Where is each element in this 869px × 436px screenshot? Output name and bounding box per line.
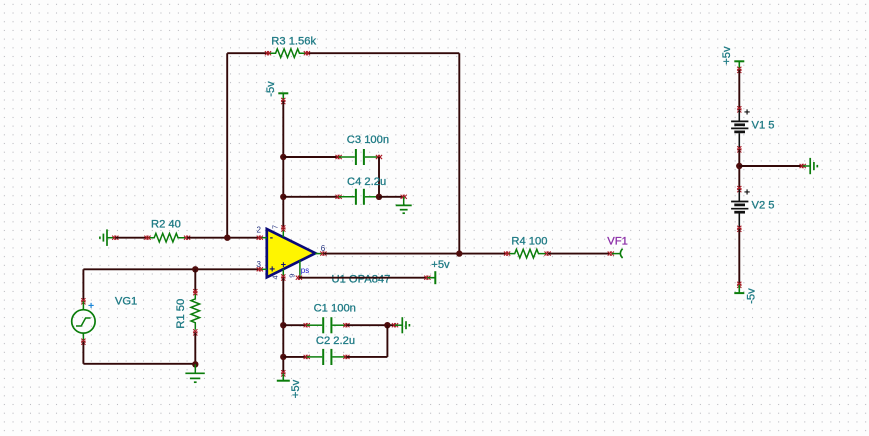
resistor R4	[504, 249, 551, 258]
svg-text:V2 5: V2 5	[752, 199, 775, 211]
svg-text:ps: ps	[301, 266, 309, 275]
node junction C1 left	[280, 322, 286, 328]
pin 9 ps lead	[296, 261, 302, 280]
wire feedback left vertical	[226, 53, 228, 238]
wire VG1 top vertical	[82, 269, 84, 301]
svg-text:6: 6	[321, 244, 326, 253]
node junction output/feedback	[456, 250, 462, 256]
svg-text:+: +	[281, 260, 286, 270]
power terminal +5v bottom	[277, 370, 290, 380]
node junction feedback/input	[224, 235, 230, 241]
battery V1	[731, 106, 750, 152]
svg-text:+5v: +5v	[290, 379, 302, 398]
svg-text:C1 100n: C1 100n	[314, 303, 356, 315]
svg-text:VF1: VF1	[607, 235, 628, 247]
wire op-amp pin4 down	[282, 278, 284, 374]
node junction R1 bottom	[192, 361, 198, 367]
capacitor C4	[336, 189, 380, 205]
wire C1 right	[346, 324, 395, 326]
wire C1 left	[283, 324, 306, 326]
node junction C1 right	[384, 322, 390, 328]
wire feedback top-left segment	[227, 52, 268, 54]
capacitor C3	[336, 149, 383, 165]
pin 4 bottom power lead	[281, 269, 285, 281]
svg-text:2: 2	[257, 226, 262, 235]
wire VG1 to op-amp pin 3	[83, 268, 259, 270]
op-amp U1 triangle	[267, 229, 316, 277]
source VG1	[72, 298, 95, 345]
power terminal +5v (ps)	[424, 271, 435, 284]
wire input gnd to R2	[115, 237, 147, 239]
wire bottom horizontal to R1	[83, 363, 195, 365]
wire C3 left	[283, 156, 338, 158]
node junction mid supply	[736, 163, 742, 169]
wire R1 bottom	[194, 332, 196, 364]
node junction C4 right	[376, 194, 382, 200]
svg-text:V1 5: V1 5	[752, 119, 775, 131]
output terminal VF1	[608, 249, 623, 258]
power terminal +5v top right	[734, 61, 744, 73]
node junction C2 left	[280, 354, 286, 360]
wire C2 up to C1	[386, 325, 388, 357]
node junction C3 left	[280, 154, 286, 160]
svg-text:R3 1.56k: R3 1.56k	[271, 35, 316, 47]
svg-text:VG1: VG1	[115, 296, 137, 308]
node junction C4 left	[280, 194, 286, 200]
wire junction to ground	[739, 165, 802, 167]
wire C4 left	[283, 196, 338, 198]
ground right rail (rotated right)	[800, 158, 818, 174]
pin 2 lead	[257, 236, 267, 240]
svg-text:R1 50: R1 50	[175, 299, 187, 329]
svg-text:+: +	[88, 300, 94, 312]
svg-text:-5v: -5v	[265, 81, 277, 97]
wire R4 to VF1	[548, 253, 610, 255]
svg-text:-: -	[270, 233, 273, 244]
svg-text:-5v: -5v	[746, 288, 758, 304]
capacitor C1	[304, 317, 350, 333]
svg-text:C2 2.2u: C2 2.2u	[316, 335, 355, 347]
svg-text:+: +	[744, 186, 750, 198]
svg-text:R2 40: R2 40	[151, 219, 181, 231]
svg-text:+: +	[744, 107, 750, 119]
wire C2 right	[346, 356, 387, 358]
wire V1 to junction	[738, 149, 740, 189]
power terminal -5v	[278, 93, 288, 104]
wire -5v rail vertical	[282, 101, 284, 229]
svg-text:+5v: +5v	[721, 46, 733, 65]
battery V2	[731, 186, 750, 232]
wire C4 to ground	[379, 196, 404, 198]
ground input (rotated left)	[100, 229, 119, 246]
wire ps to +5v	[299, 277, 428, 279]
svg-text:C4 2.2u: C4 2.2u	[347, 176, 386, 188]
svg-text:7: 7	[271, 225, 280, 229]
wire R1 top	[194, 269, 196, 292]
pin 6 output lead	[315, 252, 326, 256]
svg-text:+: +	[269, 265, 275, 276]
wire feedback right vertical	[458, 53, 460, 253]
wire V2 to -5v terminal	[738, 229, 740, 285]
svg-text:U1 OPA847: U1 OPA847	[332, 274, 391, 286]
svg-text:4: 4	[271, 275, 280, 279]
node junction R1 top	[192, 266, 198, 272]
wire R2 to op-amp pin 2	[187, 237, 260, 239]
pin 3 lead	[257, 267, 267, 271]
svg-text:R4 100: R4 100	[511, 235, 547, 247]
wire C3 right down to C4	[378, 157, 380, 197]
pin 7 top power lead	[281, 225, 285, 237]
svg-text:9: 9	[288, 274, 297, 278]
wire C2 left	[283, 356, 306, 358]
ground C4	[396, 195, 412, 214]
resistor R1	[191, 289, 200, 335]
wire VG1 bottom vertical	[82, 342, 84, 364]
power terminal -5v bottom right	[734, 282, 744, 293]
wire +5v terminal to V1	[738, 70, 740, 110]
capacitor C2	[304, 349, 350, 365]
wire feedback top-right segment	[307, 52, 459, 54]
resistor R3	[265, 49, 310, 58]
ground R1	[185, 364, 204, 382]
resistor R2	[144, 233, 190, 242]
wire output to R4	[323, 253, 507, 255]
svg-text:3: 3	[257, 260, 262, 269]
ground C1 (rotated right)	[392, 317, 410, 333]
svg-text:+5v: +5v	[431, 259, 450, 271]
svg-text:C3 100n: C3 100n	[347, 134, 389, 146]
